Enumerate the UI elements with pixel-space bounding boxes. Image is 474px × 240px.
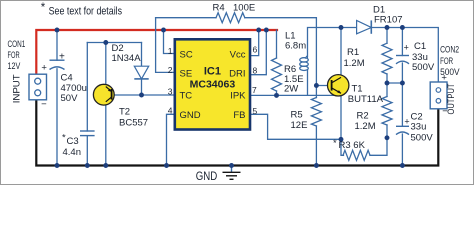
svg-text:+: + [404,117,409,127]
wire R5 bottom to rail [315,126,317,166]
node cap mid [400,81,405,86]
svg-text:4: 4 [168,105,173,115]
svg-text:1N34A: 1N34A [112,53,142,64]
svg-text:R1: R1 [347,47,359,58]
wire +12V red rail [36,30,277,74]
wire D2 column [141,43,143,96]
wire pin4 GND drop [167,114,175,165]
svg-text:FOR: FOR [8,50,20,61]
svg-text:FOR: FOR [440,56,453,67]
wire cap mid tap line [387,82,402,84]
svg-text:6: 6 [253,45,258,55]
node D2-base [139,93,144,98]
svg-text:8: 8 [253,65,258,75]
svg-text:6.8m: 6.8m [285,41,306,52]
wire pin5 FB line [250,114,341,139]
node rail-C4b [55,163,60,168]
inductor L1 [300,58,309,62]
node rail-T2 [103,163,108,168]
connector CON2 [430,82,447,109]
node rail-pin4 [164,163,169,168]
svg-text:1: 1 [168,46,173,56]
wire C2 column [401,83,403,166]
svg-text:IC1: IC1 [204,66,221,78]
svg-text:C3: C3 [67,136,79,147]
node rail-pin6 [256,28,261,33]
svg-text:*: * [333,138,337,149]
svg-text:+: + [441,72,447,83]
svg-text:*: * [62,133,66,144]
wire pin8 DRI riser [250,30,266,75]
IC U1 MC34063 body [175,39,250,129]
svg-text:500V: 500V [411,133,434,144]
svg-text:4.4n: 4.4n [63,147,82,158]
wire top line R4 [156,17,216,19]
node D1-R1 [385,25,390,30]
wire R5 segment below base node [315,86,317,98]
svg-text:R3 6K: R3 6K [339,140,366,151]
capacitor C4 plates [50,60,65,69]
wire C4 column [56,30,58,166]
svg-text:OUTPUT: OUTPUT [446,83,457,114]
svg-text:100E: 100E [233,3,255,14]
svg-text:500V: 500V [412,62,435,73]
svg-text:CON2: CON2 [440,45,459,56]
node rail-C4 [55,28,60,33]
capacitor C2 plates [396,126,409,134]
wire T2 top lead [105,43,107,87]
capacitor C3 plates [80,131,95,136]
transistor T1 [328,75,349,96]
node D1-C1 [400,25,405,30]
svg-text:BUT11A: BUT11A [348,94,384,105]
wire T1 collector [340,28,342,78]
svg-text:DRI: DRI [229,69,245,80]
node switch-T1C [339,25,344,30]
svg-text:3: 3 [168,87,173,97]
svg-text:CON1: CON1 [8,39,26,50]
svg-text:50V: 50V [61,93,79,104]
svg-text:12V: 12V [8,61,21,72]
svg-text:2: 2 [168,65,173,75]
svg-text:Vcc: Vcc [230,50,246,61]
svg-text:33u: 33u [411,122,427,133]
wire C3 column [86,43,88,166]
svg-text:GND: GND [196,169,218,183]
wire pin7 IPK stub [250,94,277,96]
resistor R4 [216,13,245,23]
diode D1 [357,20,372,33]
node rail-R5 [314,163,319,168]
wire divider middle [386,74,388,97]
wire T1 emitter drop [340,93,342,139]
resistor R5 [311,98,321,127]
svg-text:TC: TC [180,91,193,102]
wire R2 bottom [386,125,388,138]
svg-text:+: + [41,62,47,73]
node FB [339,137,344,142]
capacitor C1 plates [396,56,409,64]
transistor T2 [93,84,114,105]
svg-text:2W: 2W [284,83,298,94]
svg-text:FR107: FR107 [374,14,403,25]
node rail-pin1 [161,28,166,33]
wire L1 top to D1 line [308,28,439,83]
svg-text:GND: GND [180,110,201,121]
wire top line to T1 drop [245,18,317,86]
resistor R2 [382,97,392,126]
wire R6 bottom to IPK node [276,91,278,95]
wire node-A line y42 [87,42,141,44]
svg-text:C1: C1 [414,41,426,52]
node rail-C3 [85,163,90,168]
svg-text:1.2M: 1.2M [344,58,365,69]
svg-text:MC34063: MC34063 [190,79,236,91]
svg-text:FB: FB [233,110,245,121]
wire R3 left elbow [341,139,344,155]
svg-text:7: 7 [252,85,257,95]
wire R6 column top [276,30,278,58]
wire T1 base line [316,85,331,87]
svg-text:+: + [404,43,409,53]
node T1 base [314,83,319,88]
svg-text:SC: SC [180,50,193,61]
wire IPK node to L1 bottom [277,71,342,96]
wire pin6 Vcc riser [250,30,259,56]
ground symbol [223,166,241,180]
svg-text:+: + [59,52,65,63]
diode D2 [134,66,148,79]
wire divider column top [386,28,388,44]
svg-text:−: − [41,99,47,110]
svg-text:See text for details: See text for details [49,5,123,17]
svg-text:5: 5 [253,106,258,116]
connector CON1 [29,74,47,100]
node R2-R3 [385,135,390,140]
svg-text:INPUT: INPUT [11,74,22,103]
node rail-pin8 [264,28,269,33]
wire pin1 SC drop [164,30,175,54]
svg-text:BC557: BC557 [119,118,148,129]
wire T2 base to pin3 TC [111,94,175,96]
svg-text:C4: C4 [61,73,73,84]
svg-text:1.2M: 1.2M [355,121,376,132]
wire R3 right riser to R2 bottom [370,138,387,156]
resistor R3 [343,150,370,160]
svg-text:*: * [41,2,46,14]
node A-T2 [103,40,108,45]
wire T2 bottom lead [105,102,107,165]
svg-text:SE: SE [180,69,193,80]
node rail-gnd [229,163,234,168]
wire R4 left drop to pin2 SE [156,18,175,73]
wire ground black rail [36,100,438,166]
wire C1 column [401,28,403,84]
svg-text:T2: T2 [119,107,130,118]
resistor R1 [382,43,392,74]
node rail-C2 [400,163,405,168]
node IPK [274,93,279,98]
svg-text:12E: 12E [291,120,308,131]
resistor R6 [272,58,282,91]
node divider tap [385,81,390,86]
svg-text:R4: R4 [213,3,225,14]
svg-text:IPK: IPK [230,91,246,102]
